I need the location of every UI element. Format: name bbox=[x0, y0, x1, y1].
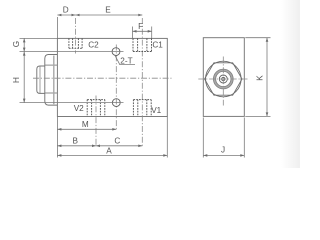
svg-text:H: H bbox=[12, 77, 21, 83]
dim J line bbox=[203, 154, 244, 156]
plug pilot hole bbox=[222, 77, 225, 80]
top edge extension (G) bbox=[20, 37, 58, 39]
svg-text:K: K bbox=[256, 75, 265, 81]
right view vertical centerline bbox=[222, 57, 224, 106]
right bottom extension bbox=[166, 117, 168, 158]
K extensions bbox=[245, 37, 270, 39]
hex facet line lower bbox=[45, 92, 58, 94]
port V2 (hidden thread) bbox=[87, 100, 105, 117]
dim F extensions bbox=[132, 27, 134, 39]
leader 2-T bbox=[115, 55, 135, 65]
hex plug hexagon bbox=[205, 63, 243, 95]
J extensions bbox=[202, 118, 204, 158]
svg-text:J: J bbox=[221, 146, 225, 155]
port V2 centerline bbox=[95, 96, 97, 146]
center holes centerline bbox=[115, 45, 117, 130]
plug chamfer circle bbox=[206, 61, 242, 97]
svg-text:C: C bbox=[114, 137, 120, 146]
horizontal centerline bbox=[33, 77, 172, 79]
hole centre extension lower (H) bbox=[20, 102, 124, 104]
E arrows bbox=[76, 14, 80, 17]
svg-text:G: G bbox=[12, 41, 21, 47]
A arrows bbox=[57, 154, 61, 157]
plug collar bbox=[37, 66, 45, 93]
svg-text:D: D bbox=[63, 6, 69, 15]
dim A line bbox=[57, 154, 167, 156]
F arrows bbox=[133, 30, 137, 33]
arrows bbox=[23, 14, 268, 157]
dim F line bbox=[133, 30, 152, 32]
K arrows bbox=[266, 38, 269, 42]
dim D left extension bbox=[56, 17, 58, 38]
hex facet line upper bbox=[45, 64, 58, 66]
port V1 (hidden thread) bbox=[133, 100, 151, 117]
svg-text:E: E bbox=[105, 6, 111, 15]
hex plug head (side view) bbox=[45, 55, 58, 106]
ports C1/V1 centerline bbox=[141, 18, 143, 146]
plug boss ring bbox=[215, 70, 233, 88]
left bottom extension bbox=[56, 117, 58, 158]
collar arc edge bbox=[39, 66, 41, 93]
B arrows bbox=[57, 145, 61, 148]
mounting hole top bbox=[112, 48, 120, 56]
hex shading line bbox=[53, 56, 55, 105]
svg-text:M: M bbox=[82, 120, 89, 129]
port C1 (hidden thread) bbox=[133, 38, 152, 51]
hole centre extension upper (G/H) bbox=[20, 51, 124, 53]
svg-text:V1: V1 bbox=[151, 106, 161, 115]
dim H line bbox=[23, 52, 25, 103]
dim D/E line bbox=[57, 14, 142, 16]
dim M line bbox=[57, 128, 116, 130]
svg-text:2-T: 2-T bbox=[120, 57, 132, 66]
mounting hole bottom bbox=[112, 99, 120, 107]
svg-text:C1: C1 bbox=[152, 40, 163, 49]
svg-text:V2: V2 bbox=[74, 104, 84, 113]
dim K line bbox=[266, 38, 268, 117]
M arrows bbox=[57, 128, 61, 131]
right view horizontal centerline bbox=[198, 78, 248, 80]
svg-text:F: F bbox=[138, 22, 143, 31]
dim B/C line bbox=[57, 145, 142, 147]
port C2 (hidden thread) bbox=[69, 38, 82, 48]
C arrows bbox=[96, 145, 100, 148]
svg-text:B: B bbox=[72, 137, 78, 146]
D arrows bbox=[57, 14, 61, 17]
H arrows bbox=[23, 52, 26, 56]
G arrows bbox=[23, 38, 26, 42]
svg-text:C2: C2 bbox=[88, 40, 99, 49]
body outline bbox=[203, 38, 244, 117]
J arrows bbox=[203, 154, 207, 157]
svg-text:A: A bbox=[106, 146, 112, 155]
port C2 centerline bbox=[75, 18, 77, 54]
plug socket circle bbox=[219, 75, 227, 83]
valve body outline bbox=[57, 38, 167, 116]
dim G line bbox=[23, 38, 25, 51]
